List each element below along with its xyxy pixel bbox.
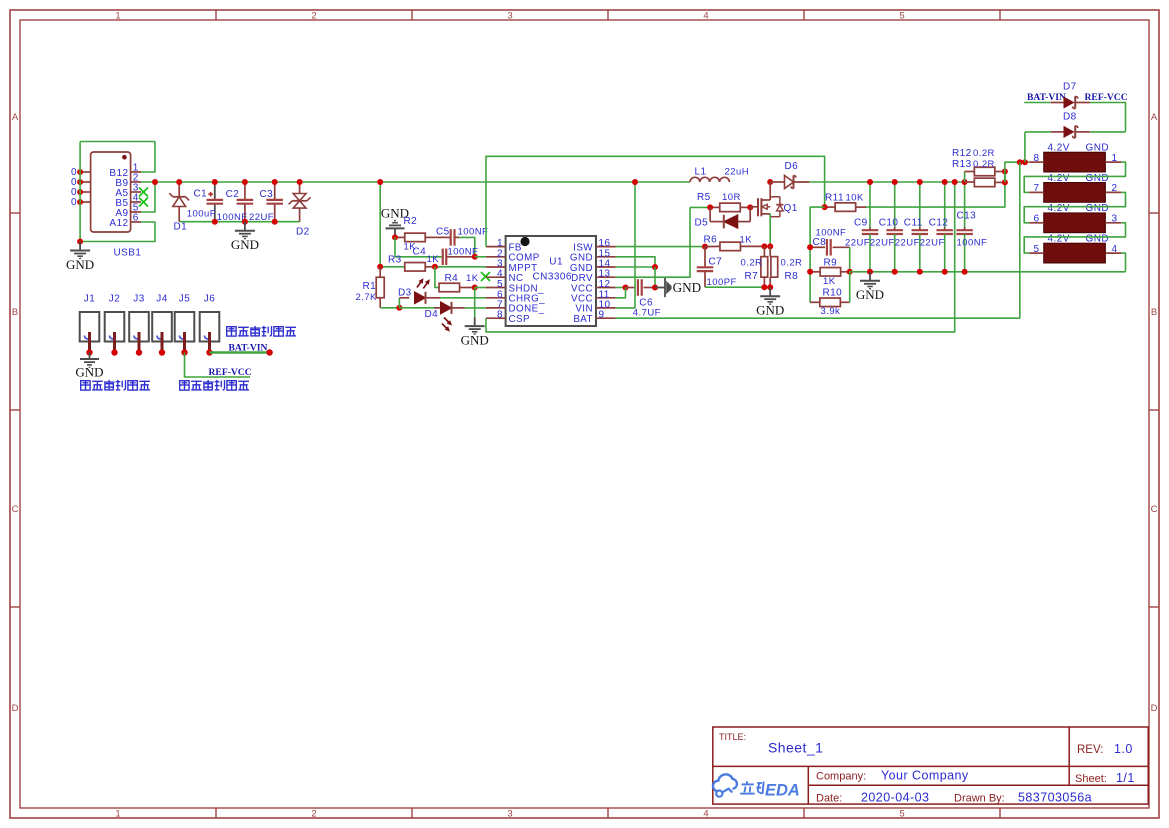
wire C7 bottom (705, 286, 764, 288)
junction usb rail (152, 179, 158, 185)
junction rail C9 (867, 179, 873, 185)
ground output GND (869, 272, 871, 281)
wire cell2 to cell3 (1024, 192, 1125, 222)
inductor L1 (690, 177, 700, 182)
svg-text:U1: U1 (549, 257, 563, 268)
wire rail to divider (379, 182, 381, 267)
svg-text:10R: 10R (722, 192, 741, 203)
svg-text:6: 6 (133, 212, 139, 223)
svg-text:0: 0 (71, 197, 77, 208)
resistor R13 (965, 181, 975, 183)
junction mppt (432, 264, 438, 270)
svg-text:D7: D7 (1063, 82, 1077, 93)
junction batt node a (1017, 159, 1023, 165)
wire R11 right (866, 172, 1005, 208)
svg-text:100PF: 100PF (707, 277, 737, 288)
junction rail C2 (242, 179, 248, 185)
svg-text:D6: D6 (785, 161, 799, 172)
svg-text:4.2V: 4.2V (1048, 203, 1070, 214)
diode D1 zener (178, 182, 180, 197)
svg-text:1K: 1K (823, 276, 836, 287)
ground input GND (244, 222, 246, 231)
svg-text:22UF: 22UF (895, 237, 920, 248)
resistor R9 (810, 271, 820, 273)
svg-text:A12: A12 (109, 218, 128, 229)
svg-text:2: 2 (311, 808, 316, 819)
svg-text:C12: C12 (929, 217, 949, 228)
wire C8 right (849, 247, 851, 271)
svg-text:6: 6 (1034, 214, 1040, 225)
junction rail D2 (297, 179, 303, 185)
svg-text:4.7UF: 4.7UF (633, 308, 661, 319)
svg-text:C9: C9 (854, 217, 868, 228)
svg-text:GND: GND (1086, 143, 1110, 154)
junction ISW node (702, 244, 708, 250)
capacitor C3 (274, 183, 276, 200)
ground C6 GND flag (655, 287, 665, 289)
ground IC GND (474, 317, 476, 326)
battery cell B2 (1044, 183, 1106, 203)
svg-text:C7: C7 (709, 257, 723, 268)
ground usb GND (79, 242, 81, 251)
junction C6 right (652, 285, 658, 291)
svg-text:GND: GND (461, 332, 489, 347)
svg-text:R4: R4 (445, 273, 459, 284)
svg-text:R8: R8 (785, 271, 799, 282)
svg-text:BAT-VIN: BAT-VIN (229, 343, 268, 354)
svg-text:0.2R: 0.2R (973, 159, 995, 170)
wire R9 to gnd rail (850, 271, 870, 273)
junction R11 left (822, 204, 828, 210)
junction pin14 (652, 264, 658, 270)
resistor R11 (825, 206, 835, 208)
svg-text:R10: R10 (823, 287, 843, 298)
junction BAT-VIN end (266, 349, 272, 355)
svg-text:C2: C2 (226, 189, 240, 200)
wire D4 anode (399, 307, 434, 309)
svg-text:100NF: 100NF (458, 227, 489, 238)
label cjk battery negative (81, 381, 90, 390)
junction R12 right (1002, 169, 1008, 175)
resistor R6 (705, 245, 720, 247)
wire VCC pin11 (616, 288, 626, 298)
wire D7 anode (1024, 102, 1051, 104)
junction R4 right (472, 285, 478, 291)
svg-text:C10: C10 (879, 217, 899, 228)
capacitor C10 (894, 182, 896, 230)
wire D8 right (1090, 131, 1126, 133)
svg-text:GND: GND (66, 257, 94, 272)
battery cell B4 (1044, 243, 1106, 263)
no-connect X pin4 NC (481, 272, 490, 281)
resistor R2 (395, 236, 405, 238)
svg-text:GND: GND (231, 237, 259, 252)
svg-text:4: 4 (703, 808, 708, 819)
wire usb top (80, 141, 155, 143)
svg-text:D5: D5 (695, 218, 709, 229)
svg-text:1: 1 (115, 808, 120, 819)
svg-text:100uF: 100uF (187, 208, 216, 219)
junction rail C11 (917, 179, 923, 185)
title block (713, 727, 1148, 804)
svg-text:EDA: EDA (765, 781, 800, 799)
svg-text:USB1: USB1 (114, 248, 142, 259)
svg-text:Sheet_1: Sheet_1 (768, 740, 823, 756)
svg-text:B: B (1151, 307, 1157, 318)
wire R1 bottom (380, 307, 399, 309)
wire R5 left (690, 206, 710, 208)
wire shdn (475, 287, 486, 289)
wire usb left bus (79, 142, 81, 242)
svg-text:J4: J4 (156, 293, 167, 304)
resistor R1 vertical (379, 267, 381, 278)
op-amp U1 CN3306 (506, 236, 596, 326)
junction R2 gnd (392, 234, 398, 240)
svg-text:C3: C3 (260, 189, 274, 200)
battery cell B1 (1044, 152, 1106, 172)
svg-text:CSP: CSP (509, 314, 531, 325)
svg-text:GND: GND (856, 287, 884, 302)
wire R4 to gnd (474, 288, 476, 318)
capacitor C7 (704, 247, 706, 268)
junction rail C12 (942, 179, 948, 185)
junction rail D1 (176, 179, 182, 185)
svg-text:D2: D2 (296, 227, 310, 238)
junction R8 bottom (767, 284, 773, 290)
svg-text:5: 5 (899, 808, 904, 819)
led D3 (399, 297, 409, 299)
junction batt node b (1022, 159, 1028, 165)
junction gnd C10 (892, 269, 898, 275)
junction divider (377, 264, 383, 270)
junction rail C3 (272, 179, 278, 185)
capacitor C1 polarized (214, 183, 216, 200)
svg-text:REV:: REV: (1077, 744, 1103, 756)
junction R5 right (747, 204, 753, 210)
junction R9 right (847, 269, 853, 275)
wire D7 cathode (1090, 103, 1126, 132)
svg-text:D3: D3 (398, 288, 412, 299)
svg-text:R13: R13 (952, 159, 972, 170)
svg-text:4.2V: 4.2V (1048, 234, 1070, 245)
svg-text:8: 8 (497, 310, 503, 321)
svg-text:D4: D4 (425, 309, 439, 320)
svg-text:4.2V: 4.2V (1048, 173, 1070, 184)
svg-text:1/1: 1/1 (1116, 771, 1135, 785)
wire mppt (435, 266, 486, 268)
junction R5 left (707, 204, 713, 210)
svg-text:R9: R9 (824, 257, 838, 268)
label cjk board supply (180, 381, 189, 390)
wire usb pin6 gnd (80, 222, 155, 242)
usb connector USB1 (91, 152, 131, 232)
wire cell1 to cell2 (1024, 162, 1125, 192)
svg-text:Your Company: Your Company (881, 769, 969, 783)
svg-text:3: 3 (507, 808, 512, 819)
svg-text:REF-VCC: REF-VCC (1085, 92, 1128, 103)
resistor R10 (810, 301, 819, 303)
svg-text:22UF: 22UF (870, 237, 895, 248)
svg-text:J1: J1 (84, 293, 95, 304)
svg-text:4: 4 (703, 10, 708, 21)
svg-text:BAT: BAT (573, 314, 593, 325)
junction comp (472, 254, 478, 260)
svg-text:2.7K: 2.7K (356, 292, 378, 303)
wire main VIN rail (141, 181, 690, 183)
diode D2 tvs (299, 182, 301, 194)
wire d8 down (1024, 132, 1026, 162)
svg-text:TITLE:: TITLE: (719, 732, 746, 742)
capacitor C2 (244, 183, 246, 200)
svg-text:Drawn By:: Drawn By: (954, 793, 1005, 805)
svg-text:2: 2 (311, 10, 316, 21)
wire usb pin1 (141, 142, 155, 173)
svg-text:D8: D8 (1063, 112, 1077, 123)
wire comp to pin2 (475, 256, 486, 258)
svg-text:C8: C8 (813, 237, 827, 248)
wire CSP (486, 182, 955, 332)
junction gnd C11 (917, 269, 923, 275)
svg-text:C: C (12, 504, 19, 515)
wire batt node (1005, 162, 1029, 182)
svg-text:A: A (12, 112, 19, 123)
junction rail Q1 (767, 179, 773, 185)
wire VCC pin12 (616, 287, 626, 289)
svg-text:3: 3 (507, 10, 512, 21)
wire cap bottom rail (179, 221, 299, 223)
wire GND pin14 (616, 266, 655, 268)
svg-text:R11: R11 (825, 193, 844, 204)
svg-text:GND: GND (1086, 234, 1110, 245)
svg-text:R1: R1 (363, 281, 377, 292)
svg-text:Company:: Company: (816, 771, 866, 783)
svg-text:GND: GND (1086, 203, 1110, 214)
svg-text:A: A (1151, 112, 1158, 123)
svg-text:GND: GND (756, 303, 784, 318)
junction bot C2 (242, 219, 248, 225)
svg-text:R7: R7 (745, 271, 759, 282)
junction rail C10 (892, 179, 898, 185)
capacitor C6 (626, 287, 636, 289)
svg-text:D: D (12, 703, 19, 714)
svg-text:0.2R: 0.2R (973, 148, 995, 159)
transistor Q1 nmos (750, 206, 757, 208)
junction R13 right (1002, 179, 1008, 185)
ground J1 GND (89, 353, 91, 360)
svg-text:L1: L1 (695, 167, 707, 178)
LCEDA logo (713, 774, 737, 791)
svg-text:R12: R12 (952, 148, 972, 159)
svg-text:BAT-VIN: BAT-VIN (1027, 92, 1066, 103)
svg-text:1: 1 (1112, 153, 1118, 164)
svg-text:R3: R3 (388, 255, 402, 266)
svg-text:583703056a: 583703056a (1018, 791, 1092, 805)
svg-text:2020-04-03: 2020-04-03 (861, 791, 929, 805)
svg-text:B: B (12, 307, 18, 318)
resistor R5 (710, 206, 719, 208)
svg-text:1: 1 (115, 10, 120, 21)
junction R8 top (767, 243, 773, 249)
junction R9 left (807, 269, 813, 275)
wire C5 to comp (459, 237, 475, 256)
svg-text:2: 2 (1112, 183, 1118, 194)
wire GND pin15 (616, 257, 655, 267)
no-connect X usb pin3 (139, 188, 148, 197)
svg-text:5: 5 (899, 10, 904, 21)
no-connect X usb pin4 (139, 198, 148, 207)
svg-text:J2: J2 (109, 293, 120, 304)
capacitor C4 (442, 249, 444, 265)
svg-text:R5: R5 (697, 192, 711, 203)
junction R7 top (761, 243, 767, 249)
wire comp branch (394, 237, 396, 256)
capacitor C5 (435, 236, 450, 238)
resistor R3 (380, 266, 405, 268)
wire D3 cathode (440, 297, 486, 299)
junction bot C1 (212, 219, 218, 225)
junction rail CSP (952, 179, 958, 185)
svg-text:C1: C1 (194, 188, 208, 199)
junction rail C1 (212, 179, 218, 185)
ground R2 GND flag (394, 228, 396, 237)
svg-text:4.2V: 4.2V (1048, 143, 1070, 154)
junction rail divider (377, 179, 383, 185)
svg-text:J5: J5 (179, 293, 190, 304)
capacitor C11 (919, 182, 921, 230)
svg-text:C: C (1151, 504, 1158, 515)
svg-text:22UF: 22UF (845, 237, 870, 248)
svg-text:1.0: 1.0 (1114, 742, 1133, 756)
wire bat pin up (1019, 162, 1021, 318)
junction R1 bottom (396, 305, 402, 311)
junction VCC12 (623, 285, 629, 291)
wire output gnd rail (870, 271, 1126, 273)
junction gnd C12 (942, 269, 948, 275)
svg-text:CN3306: CN3306 (533, 272, 572, 283)
diode D8 (1051, 131, 1064, 133)
svg-text:0.2R: 0.2R (781, 257, 803, 268)
svg-text:7: 7 (1034, 183, 1040, 194)
wire cell4 to gnd (1121, 253, 1125, 272)
svg-text:J3: J3 (133, 293, 144, 304)
svg-text:GND: GND (1086, 173, 1110, 184)
svg-text:D: D (1151, 703, 1158, 714)
capacitor C12 (944, 182, 946, 230)
wire VIN pin10 (616, 182, 635, 308)
svg-text:10K: 10K (846, 193, 864, 204)
led D3 arrows (415, 274, 432, 292)
svg-text:1K: 1K (740, 234, 753, 245)
svg-text:Sheet:: Sheet: (1075, 773, 1107, 785)
resistor R4 (435, 267, 439, 288)
svg-text:22UF: 22UF (920, 237, 945, 248)
junction usb gnd (77, 239, 83, 245)
wire rail D6 to right (809, 181, 964, 183)
wire ISW pin16 (616, 246, 705, 248)
junction bot C3 (272, 219, 278, 225)
svg-text:Date:: Date: (816, 793, 842, 805)
svg-text:0.2R: 0.2R (741, 257, 763, 268)
capacitor C13 (964, 182, 966, 230)
wire fb divider left (810, 207, 825, 302)
svg-text:5: 5 (1034, 244, 1040, 255)
wire Q1 source (769, 214, 771, 247)
battery cell B3 (1044, 213, 1106, 233)
junction C8 left (807, 244, 813, 250)
svg-text:R6: R6 (704, 234, 718, 245)
svg-text:D1: D1 (174, 222, 188, 233)
wire FB net (486, 156, 825, 246)
svg-text:Q1: Q1 (784, 203, 798, 214)
svg-text:22uH: 22uH (725, 167, 750, 178)
ground sense GND (769, 287, 771, 296)
led D4 (441, 302, 452, 314)
svg-text:1K: 1K (427, 254, 440, 265)
resistor R7 vertical (763, 246, 765, 256)
junction rail VIN (632, 179, 638, 185)
svg-text:100NF: 100NF (957, 237, 988, 248)
wire D8 left (1025, 131, 1051, 133)
diode D7 (1051, 102, 1064, 104)
svg-text:3.9k: 3.9k (821, 306, 841, 317)
wire BAT pin9 (616, 317, 1020, 319)
svg-text:4: 4 (1112, 244, 1118, 255)
svg-text:9: 9 (599, 310, 605, 321)
svg-text:8: 8 (1034, 153, 1040, 164)
junction gnd C13 (962, 269, 968, 275)
junction rail C13 (962, 179, 968, 185)
wire net BAT-VIN (210, 351, 270, 354)
svg-text:1K: 1K (466, 273, 479, 284)
diode D6 (770, 181, 785, 183)
svg-text:REF-VCC: REF-VCC (209, 367, 252, 378)
svg-text:3: 3 (1112, 214, 1118, 225)
capacitor C9 (869, 182, 871, 230)
svg-text:R2: R2 (404, 216, 418, 227)
svg-text:C4: C4 (413, 246, 427, 257)
label cjk battery positive (227, 327, 236, 336)
wire usb pin5 up (141, 182, 155, 212)
svg-text:J6: J6 (204, 293, 215, 304)
svg-text:C11: C11 (904, 217, 923, 228)
svg-text:GND: GND (673, 280, 702, 295)
junction R7 bottom (761, 284, 767, 290)
wire net REF-VCC (185, 353, 251, 378)
diode D5 parallel (709, 207, 711, 221)
svg-text:C5: C5 (436, 227, 450, 238)
svg-text:GND: GND (75, 365, 103, 380)
wire led join (398, 298, 400, 308)
wire gnd down (654, 267, 656, 288)
resistor R8 vertical (769, 246, 771, 256)
connectors J1-J6 (80, 312, 100, 342)
capacitor C8 (810, 246, 825, 248)
led D4 arrows (438, 316, 456, 334)
svg-text:22UF: 22UF (249, 212, 274, 223)
wire D4 cathode (465, 307, 486, 309)
junction gnd C9 (867, 269, 873, 275)
wire DRV pin13 (616, 207, 690, 277)
svg-text:C13: C13 (957, 211, 977, 222)
wire R10 right up (849, 272, 851, 303)
resistor R12 (964, 172, 966, 183)
wire cell3 to cell4 (1024, 223, 1125, 253)
